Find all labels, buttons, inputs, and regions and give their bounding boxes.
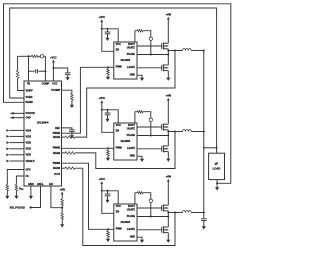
op-amp U1 controller IC ISL6564 box	[24, 81, 62, 186]
svg-text:ISEN3: ISEN3	[53, 167, 61, 170]
resistor boot (driver 1)	[134, 31, 136, 42]
resistor ISEN1	[62, 136, 66, 138]
svg-text:OFS: OFS	[26, 169, 31, 172]
transistor Q3A high-side MOSFET	[161, 205, 163, 211]
wire phase node (driver 3)	[167, 211, 169, 227]
wire COMP pin riser	[44, 56, 46, 81]
wire LGATE (driver 2)	[137, 148, 162, 150]
svg-text:+VCC: +VCC	[99, 178, 106, 181]
transistor Q3B low-side MOSFET	[161, 227, 163, 233]
node FB junction	[28, 55, 30, 57]
resistor PWM pulldown (driver 2)	[108, 147, 114, 149]
ground VCC decoupling cap	[67, 75, 69, 78]
svg-text:PWM: PWM	[116, 147, 122, 150]
wire lower comp branch	[29, 70, 35, 72]
svg-text:ISL6605: ISL6605	[121, 221, 131, 224]
resistor EN divider upper	[61, 196, 63, 199]
svg-text:ISEN2: ISEN2	[53, 152, 61, 155]
svg-text:EN: EN	[49, 183, 53, 186]
capacitor bootstrap (driver 3)	[149, 199, 152, 202]
wire ENLL to VID_PGOOD	[30, 186, 41, 208]
svg-text:VCC: VCC	[52, 83, 57, 86]
svg-text:IOUT: IOUT	[54, 173, 60, 176]
node VOUT load tap	[203, 147, 205, 149]
svg-text:FS: FS	[26, 175, 30, 178]
ground PWM pulldown (driver 2)	[107, 156, 109, 158]
resistor ISEN2	[62, 152, 66, 154]
wire LGATE (driver 1)	[137, 67, 162, 69]
svg-text:EN: EN	[116, 49, 120, 52]
node VCC junction (driver 2)	[101, 109, 103, 111]
capacitor VCC decoupling	[65, 72, 71, 74]
svg-text:PHASE: PHASE	[127, 215, 136, 218]
transistor Q2A high-side MOSFET	[161, 124, 163, 130]
node VCC junction	[52, 67, 54, 69]
node bootstrap to PHASE (driver 2)	[150, 135, 152, 137]
wire phase rail (driver 3)	[168, 212, 182, 214]
input VID1	[10, 148, 24, 150]
svg-text:PHASE: PHASE	[127, 53, 136, 56]
node ISEN tap (phase 1)	[174, 50, 176, 52]
input VID12.5	[10, 160, 24, 162]
wire +VCC to EN pin (driver 3)	[102, 185, 114, 213]
svg-text:ISL6605: ISL6605	[121, 59, 131, 62]
transistor Q2B low-side MOSFET	[161, 146, 163, 152]
resistor PWM pulldown (driver 3)	[108, 228, 114, 230]
svg-text:VCC: VCC	[116, 205, 121, 208]
wire EN pin to divider	[51, 186, 62, 208]
wire remote VOUT sense (load top to VSEN, around perimeter)	[10, 8, 217, 148]
ground GND pin (driver 1)	[137, 75, 142, 76]
input VID2	[10, 142, 24, 144]
capacitor CC (series, circle style)	[39, 55, 41, 57]
wire UGATE (driver 3)	[137, 207, 162, 209]
svg-text:LOAD: LOAD	[213, 167, 221, 171]
svg-text:VID12.5: VID12.5	[26, 160, 36, 163]
svg-text:ISL6564: ISL6564	[37, 120, 49, 124]
transistor Q1B low-side MOSFET	[161, 65, 163, 71]
svg-text:EN: EN	[116, 211, 120, 214]
resistor boot (driver 3)	[134, 193, 136, 204]
ground EN divider	[61, 220, 63, 225]
wire VCC decoupling branch	[53, 68, 67, 72]
wire phase node (driver 2)	[167, 130, 169, 146]
svg-text:UGATE: UGATE	[127, 209, 136, 212]
wire remote ground sense (load bottom to RGND, around perimeter)	[4, 4, 231, 184]
ground VCC cap (driver 3)	[107, 196, 109, 200]
svg-text:PWM1: PWM1	[53, 132, 61, 135]
wire VCC feed (driver 2)	[102, 110, 118, 123]
svg-text:VID4: VID4	[26, 129, 32, 132]
wire PHASE pin (driver 1)	[137, 54, 168, 56]
svg-text:VID1: VID1	[26, 148, 32, 151]
svg-text:PWM2: PWM2	[53, 147, 61, 150]
svg-text:FB: FB	[27, 83, 31, 86]
svg-text:GND: GND	[130, 154, 136, 157]
node phase rail to VOUT (driver 3)	[203, 212, 205, 214]
svg-text:VCC: VCC	[116, 124, 121, 127]
svg-text:PWM: PWM	[116, 66, 122, 69]
output OVP	[10, 117, 24, 119]
capacitor VCC decoupling (driver 2)	[107, 109, 109, 111]
wire load ground stub	[216, 180, 218, 186]
svg-text:VID_PGOOD: VID_PGOOD	[10, 206, 26, 210]
wire PWM1 (controller to driver 1)	[62, 67, 109, 133]
ground GND pin (driver 3)	[137, 237, 142, 238]
svg-text:+VIN: +VIN	[166, 95, 172, 98]
capacitor REF bypass	[62, 128, 72, 129]
wire ISEN1 to phase 1	[75, 51, 175, 138]
wire FB pin riser	[28, 56, 30, 81]
resistor OFS pin to ground	[7, 170, 24, 185]
svg-text:µP: µP	[215, 162, 219, 166]
ground low-side source (driver 3)	[167, 233, 169, 239]
svg-text:VSEN: VSEN	[26, 96, 33, 99]
wire PHASE pin (driver 3)	[137, 216, 168, 218]
node bootstrap to PHASE (driver 3)	[150, 216, 152, 218]
input VID4	[10, 129, 24, 131]
ground output cap	[203, 221, 205, 227]
svg-text:BOOT: BOOT	[128, 205, 135, 208]
svg-text:ISL6605: ISL6605	[121, 140, 131, 143]
capacitor bootstrap (driver 2)	[149, 118, 152, 121]
ground RFS	[15, 191, 17, 196]
svg-text:PHASE: PHASE	[127, 134, 136, 137]
node EN divider	[61, 207, 63, 209]
ground GND pin (driver 2)	[137, 156, 142, 157]
svg-text:+VIN: +VIN	[166, 176, 172, 179]
svg-text:BOOT: BOOT	[128, 43, 135, 46]
resistor boot (driver 2)	[134, 112, 136, 123]
wire PWM3 (controller to driver 3)	[62, 163, 109, 229]
resistor RFS (FS pin)	[16, 176, 24, 185]
resistor PWM pulldown (driver 1)	[108, 66, 114, 68]
wire +VCC to EN pin (driver 2)	[102, 104, 114, 132]
svg-text:+VIN: +VIN	[166, 14, 172, 17]
node ISEN tap (phase 3)	[174, 212, 176, 214]
svg-text:COMP: COMP	[42, 83, 50, 86]
svg-text:RGND: RGND	[26, 101, 34, 104]
wire VOUT rail	[203, 51, 205, 219]
ground REF cap	[71, 132, 73, 136]
svg-text:PWM: PWM	[116, 228, 122, 231]
ground TCOMP resistor	[71, 101, 73, 105]
capacitor VCC decoupling (driver 1)	[107, 28, 109, 30]
svg-text:UGATE: UGATE	[127, 128, 136, 131]
svg-text:VID0: VID0	[26, 154, 32, 157]
svg-text:OVP: OVP	[26, 117, 32, 120]
svg-text:TCOMP: TCOMP	[51, 89, 60, 92]
inductor L2 output	[183, 130, 192, 132]
transistor Q1A high-side MOSFET	[161, 43, 163, 49]
svg-text:ENLL: ENLL	[37, 183, 44, 186]
node bootstrap to PHASE (driver 1)	[150, 54, 152, 56]
wire VCC pin	[52, 64, 54, 82]
wire ISEN3 to phase 3	[75, 168, 175, 245]
op-amp U4 driver IC ISL6605 (phase 3) box	[114, 204, 137, 241]
svg-text:LGATE: LGATE	[127, 66, 135, 69]
svg-text:UGATE: UGATE	[127, 47, 136, 50]
node VCC junction (driver 3)	[101, 190, 103, 192]
svg-text:+VIN: +VIN	[60, 188, 66, 191]
input VID0	[10, 154, 24, 156]
ground OFS resistor	[6, 191, 8, 196]
ground low-side source (driver 1)	[167, 71, 169, 77]
op-amp U2 driver IC ISL6605 (phase 1) box	[114, 42, 137, 79]
input VID3	[10, 135, 24, 137]
wire +VCC to EN pin (driver 1)	[102, 23, 114, 51]
node phase rail to VOUT (driver 1)	[203, 50, 205, 52]
wire UGATE (driver 2)	[137, 126, 162, 128]
inductor L1 output	[183, 49, 192, 51]
capacitor bootstrap (driver 1)	[149, 37, 152, 40]
svg-text:LGATE: LGATE	[127, 228, 135, 231]
ground PWM pulldown (driver 3)	[107, 237, 109, 239]
ground GND pin (controller)	[30, 186, 32, 192]
op-amp U3 driver IC ISL6605 (phase 2) box	[114, 123, 137, 160]
capacitor CF (FB-COMP parallel)	[35, 69, 37, 73]
svg-text:ISEN1: ISEN1	[53, 136, 61, 139]
svg-text:GND: GND	[130, 73, 136, 76]
node uP LOAD box	[209, 153, 225, 179]
resistor ISEN3	[62, 167, 66, 169]
resistor RC (FB-COMP series)	[21, 55, 32, 57]
svg-text:VID2: VID2	[26, 142, 32, 145]
resistor RFB (VDIFF to FB node)	[18, 56, 21, 70]
wire PWM2 (controller to driver 2)	[62, 147, 109, 149]
svg-text:VDIFF: VDIFF	[26, 90, 34, 93]
output PGOOD	[10, 112, 24, 114]
node phase rail to VOUT (driver 2)	[203, 131, 205, 133]
svg-text:PWM3: PWM3	[53, 162, 61, 165]
wire VCC feed (driver 1)	[102, 29, 118, 42]
wire load top stub	[216, 148, 218, 153]
wire phase rail (driver 1)	[168, 50, 182, 52]
svg-text:+VCC: +VCC	[99, 97, 106, 100]
resistor TCOMP to ground	[62, 90, 72, 93]
svg-text:LGATE: LGATE	[127, 147, 135, 150]
ground low-side source (driver 2)	[167, 152, 169, 158]
svg-text:+VCC: +VCC	[99, 16, 106, 19]
wire VOUT to load	[204, 147, 217, 149]
svg-text:+VCC: +VCC	[50, 56, 57, 59]
wire LGATE (driver 3)	[137, 229, 162, 231]
svg-text:BOOT: BOOT	[128, 124, 135, 127]
wire VCC feed (driver 3)	[102, 191, 118, 204]
capacitor VCC decoupling (driver 3)	[107, 190, 109, 192]
svg-text:VCC: VCC	[116, 43, 121, 46]
svg-text:GND: GND	[28, 183, 34, 186]
ground PWM pulldown (driver 1)	[107, 75, 109, 77]
wire ISEN2 to phase 2	[75, 132, 175, 169]
node CF right junction	[44, 70, 46, 72]
wire phase rail (driver 2)	[168, 131, 182, 133]
resistor EN divider lower	[61, 213, 64, 220]
wire UGATE (driver 1)	[137, 45, 162, 47]
svg-text:REF: REF	[55, 127, 60, 130]
wire phase node (driver 1)	[167, 49, 169, 65]
capacitor output bank	[201, 218, 207, 220]
svg-text:GND: GND	[130, 235, 136, 238]
node ISEN tap (phase 2)	[174, 131, 176, 133]
ground load	[216, 185, 218, 187]
svg-text:VID3: VID3	[26, 135, 32, 138]
node VCC junction (driver 1)	[101, 28, 103, 30]
svg-text:EN: EN	[116, 130, 120, 133]
ground VCC cap (driver 2)	[107, 115, 109, 119]
inductor L3 output	[183, 211, 192, 213]
svg-text:PGOOD: PGOOD	[26, 112, 36, 115]
wire PHASE pin (driver 2)	[137, 135, 168, 137]
ground VCC cap (driver 1)	[107, 34, 109, 38]
